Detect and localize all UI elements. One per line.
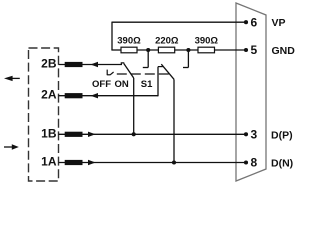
svg-text:OFF: OFF: [92, 79, 111, 90]
wire pole1 to D(P): [133, 78, 135, 134]
node A junction dot: [146, 48, 150, 52]
svg-text:6: 6: [251, 15, 258, 29]
terminal box (dashed enclosure): [29, 48, 59, 181]
switch coupling dashed link: [117, 73, 170, 75]
terminal block 2B: [65, 62, 83, 67]
svg-text:GND: GND: [272, 45, 296, 57]
svg-text:5: 5: [251, 43, 258, 57]
pin 5 dot: [244, 48, 248, 52]
stub node B to switch contact: [183, 50, 188, 68]
wire pole2 to D(N): [173, 79, 175, 162]
svg-text:2A: 2A: [41, 88, 57, 102]
arrowhead on 2A wire (left): [91, 93, 99, 98]
resistor R2 220Ω: [158, 47, 174, 53]
svg-text:1B: 1B: [41, 127, 57, 141]
stub node A to switch contact: [143, 50, 148, 68]
arrowhead on 2B wire (left): [91, 62, 99, 67]
wire row 1A to pin 8: [59, 162, 247, 164]
svg-text:220Ω: 220Ω: [155, 36, 179, 47]
connector X1 (D-sub body): [236, 3, 266, 181]
junction dot pole1/1B: [132, 132, 136, 136]
junction dot pole2/1A: [172, 160, 176, 164]
svg-text:D(P): D(P): [271, 129, 293, 141]
arrowhead on 1B wire (right): [88, 132, 96, 137]
svg-text:ON: ON: [115, 79, 129, 90]
switch S1 pole1 contact step: [121, 63, 124, 65]
pin 6 dot: [244, 20, 248, 24]
svg-text:8: 8: [251, 156, 258, 170]
svg-text:D(N): D(N): [271, 158, 293, 170]
switch S1 pole2 blade: [161, 64, 174, 79]
pin 8 dot: [244, 160, 248, 164]
wire VP drop: [111, 22, 113, 50]
svg-text:VP: VP: [272, 17, 286, 29]
switch position icon (OFF): [107, 70, 113, 76]
svg-text:390Ω: 390Ω: [195, 36, 219, 47]
svg-text:1A: 1A: [41, 155, 57, 169]
arrow bus-in (right pointing): [4, 144, 19, 149]
switch S1 pole1 blade: [124, 64, 134, 79]
svg-text:390Ω: 390Ω: [117, 36, 141, 47]
wire VP top: [112, 21, 246, 23]
wire row 2B: [59, 64, 123, 66]
svg-text:3: 3: [251, 128, 258, 142]
resistor R3 390Ω: [198, 47, 215, 53]
svg-text:S1: S1: [141, 79, 153, 90]
wire 2A riser: [157, 67, 159, 97]
resistor R1 390Ω: [121, 47, 137, 53]
svg-text:2B: 2B: [41, 57, 57, 71]
terminal block 1A: [65, 160, 83, 165]
node B junction dot: [186, 48, 190, 52]
terminal block 1B: [65, 132, 83, 137]
wire row 1B to pin 3: [59, 133, 247, 135]
arrowhead on 1A wire (right): [88, 160, 96, 165]
switch S1 pole2 pivot tick: [158, 66, 163, 68]
wire row 2A: [59, 95, 159, 97]
wire resistor row: [111, 49, 246, 51]
terminal block 2A: [65, 93, 83, 98]
arrow bus-out (left pointing): [4, 76, 20, 81]
pin 3 dot: [244, 132, 248, 136]
